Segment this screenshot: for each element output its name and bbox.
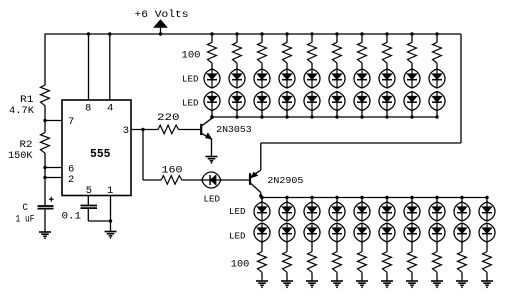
resistor 100 (bottom bank col 5) <box>358 252 367 273</box>
resistor 160 <box>161 164 182 184</box>
wire: column 3 top bank <box>261 34 263 42</box>
wire: column 2 top bank <box>236 34 238 42</box>
LED D0 indicator (horizontal) <box>202 172 221 204</box>
wire: column 3 bottom bank <box>311 198 313 203</box>
junction: top rail column 1 <box>210 32 213 35</box>
LED (top bank col 1 upper) <box>204 69 220 88</box>
LED (top bank col 2 upper) <box>229 69 245 88</box>
LED (top bank col 2 lower) <box>229 92 245 111</box>
wire: column 6 bottom bank <box>386 198 388 203</box>
wire: 2N3053 collector to top LED bus <box>211 117 213 118</box>
svg-text:7: 7 <box>68 116 74 128</box>
svg-text:4.7K: 4.7K <box>9 105 35 117</box>
wire: top LED bank bottom bus <box>212 116 437 118</box>
LED (top bank col 4 upper) <box>279 69 295 88</box>
wire: column 9 top bank <box>411 34 413 42</box>
ground: bottom bank col 10 <box>481 281 493 288</box>
svg-text:LED: LED <box>229 207 246 217</box>
wire: column 1 top bank <box>211 34 213 42</box>
junction: top rail column 10 <box>435 32 438 35</box>
wire: pin 1 down to ground <box>110 196 112 232</box>
LED (bottom bank col 8 upper) <box>429 202 445 221</box>
junction: pin 8 on rail <box>87 32 90 35</box>
ground: bottom bank col 6 <box>381 281 393 288</box>
junction: top rail column 2 <box>235 32 238 35</box>
LED (bottom bank col 1 upper) <box>254 202 270 221</box>
LED (bottom bank col 2 lower) <box>279 223 295 242</box>
wire: column 8 bottom bank <box>436 198 438 203</box>
LED (top bank col 10 upper) <box>429 69 445 88</box>
junction: top bus column 9 <box>410 115 413 118</box>
LED (top bank col 8 lower) <box>379 92 395 111</box>
ground: bottom bank col 9 <box>456 281 468 288</box>
junction: pin 2 node <box>43 176 46 179</box>
wire: 2N3053 emitter to ground <box>211 139 213 156</box>
wire: 220 to 2N3053 base <box>178 129 200 131</box>
resistor R1 <box>9 85 49 117</box>
svg-text:LED: LED <box>182 74 199 84</box>
LED (top bank col 10 lower) <box>429 92 445 111</box>
wire: column 6 top bank <box>336 34 338 42</box>
svg-text:3: 3 <box>123 125 129 137</box>
junction: top rail column 4 <box>285 32 288 35</box>
junction: top bus column 8 <box>385 115 388 118</box>
ground: bottom bank col 7 <box>406 281 418 288</box>
transistor Q1 2N3053 (NPN) <box>201 118 252 139</box>
junction: bottom bus column 4 <box>335 196 338 199</box>
ground: bottom bank col 3 <box>306 281 318 288</box>
wire: column 9 bottom bank <box>461 198 463 203</box>
wire: column 7 top bank <box>361 34 363 42</box>
ground: bottom bank col 4 <box>331 281 343 288</box>
svg-text:LED: LED <box>229 232 246 242</box>
svg-text:220: 220 <box>157 112 180 124</box>
resistor 100 (top bank col 2) <box>233 42 242 63</box>
LED (top bank col 9 lower) <box>404 92 420 111</box>
node +6V: supply arrow and label <box>135 9 189 34</box>
resistor 100 (top bank col 5) <box>308 42 317 63</box>
wire: R1 junction down through R2 to capacitor C <box>44 121 46 133</box>
junction: top rail column 6 <box>335 32 338 35</box>
svg-text:100: 100 <box>231 259 250 271</box>
resistor 100 (bottom bank col 4) <box>333 252 342 273</box>
svg-text:LED: LED <box>182 99 199 109</box>
junction: bottom bus column 5 <box>360 196 363 199</box>
resistor 100 (top bank col 10) <box>433 42 442 63</box>
wire: column 5 bottom bank <box>361 198 363 203</box>
svg-text:150K: 150K <box>8 150 33 162</box>
svg-text:+6 Volts: +6 Volts <box>135 9 189 21</box>
LED (bottom bank col 4 upper) <box>329 202 345 221</box>
capacitor 0.1 <box>62 206 98 223</box>
wire: +6V drop into 2N2905 emitter <box>260 143 262 170</box>
ground: bottom bank col 5 <box>356 281 368 288</box>
LED (bottom bank col 2 upper) <box>279 202 295 221</box>
LED (bottom bank col 7 lower) <box>404 223 420 242</box>
junction: collector on bottom LED bus <box>259 194 262 197</box>
LED (top bank col 6 upper) <box>329 69 345 88</box>
LED (bottom bank col 3 lower) <box>304 223 320 242</box>
wire: bottom LED bank top bus <box>261 197 487 199</box>
LED (top bank col 3 upper) <box>254 69 270 88</box>
wire: pin 8 to +6V rail <box>88 34 90 100</box>
wire: 160 to indicator LED <box>182 179 202 181</box>
junction: top rail column 3 <box>260 32 263 35</box>
wire: column 5 top bank <box>311 34 313 42</box>
svg-text:4: 4 <box>107 103 113 115</box>
LED (bottom bank col 5 upper) <box>354 202 370 221</box>
resistor 100 (top bank col 6) <box>333 42 342 63</box>
LED (bottom bank col 8 lower) <box>429 223 445 242</box>
wire: +6V feed running left to 2N2905 emitter <box>261 142 461 144</box>
junction: pin 4 on rail <box>108 32 111 35</box>
junction: top bus column 6 <box>335 115 338 118</box>
junction: top rail column 7 <box>360 32 363 35</box>
svg-text:LED: LED <box>204 194 221 204</box>
LED (top bank col 5 lower) <box>304 92 320 111</box>
junction: bottom bus column 3 <box>310 196 313 199</box>
svg-text:C: C <box>23 202 29 214</box>
junction: pin1 / 0.1 cap <box>109 219 112 222</box>
junction: bottom bus column 2 <box>285 196 288 199</box>
LED (top bank col 8 upper) <box>379 69 395 88</box>
resistor 100 (top bank col 8) <box>383 42 392 63</box>
capacitor C 1uF (polarized) <box>16 197 54 226</box>
LED (bottom bank col 7 upper) <box>404 202 420 221</box>
wire: column 7 bottom bank <box>411 198 413 203</box>
svg-text:1: 1 <box>107 185 113 197</box>
junction: pin 3 branch node <box>141 128 144 131</box>
LED (top bank col 3 lower) <box>254 92 270 111</box>
resistor 100 (bottom bank col 9) <box>458 252 467 273</box>
LED (bottom bank col 10 lower) <box>479 223 495 242</box>
LED (bottom bank col 6 upper) <box>379 202 395 221</box>
svg-text:160: 160 <box>162 164 183 176</box>
wire: +6V rail right-side drop to x=461 <box>460 34 462 143</box>
LED (top bank col 7 upper) <box>354 69 370 88</box>
junction: top bus column 2 <box>235 115 238 118</box>
LED (bottom bank col 10 upper) <box>479 202 495 221</box>
junction: bottom bus column 10 <box>485 196 488 199</box>
wire: node to pin 6 <box>45 167 62 169</box>
svg-text:100: 100 <box>182 49 201 61</box>
resistor R2 <box>8 133 49 163</box>
wire: column 2 bottom bank <box>286 198 288 203</box>
LED (top bank col 4 lower) <box>279 92 295 111</box>
resistor 100 (top bank col 1) <box>208 42 217 63</box>
wire: LED to 2N2905 base <box>221 179 250 181</box>
resistor 220 <box>157 112 180 134</box>
wire: branch from pin3 node down <box>142 130 144 181</box>
wire: column 10 bottom bank <box>486 198 488 203</box>
wire: 2N2905 collector to bottom LED bus <box>260 193 262 198</box>
LED (top bank col 7 lower) <box>354 92 370 111</box>
LED (bottom bank col 3 upper) <box>304 202 320 221</box>
wire: +6V horizontal rail <box>45 33 462 35</box>
svg-text:5: 5 <box>86 185 92 197</box>
svg-text:0.1: 0.1 <box>62 211 82 223</box>
wire: rail down-left corner to R1 <box>44 34 46 85</box>
wire: column 1 bottom bank <box>261 198 263 203</box>
resistor 100 (bottom bank col 1) <box>258 252 267 273</box>
resistor 100 (top bank col 4) <box>283 42 292 63</box>
ground: below pin 1 <box>105 232 117 239</box>
junction: top bus column 4 <box>285 115 288 118</box>
resistor 100 (bottom bank col 8) <box>433 252 442 273</box>
wire: column 4 top bank <box>286 34 288 42</box>
svg-text:8: 8 <box>85 103 91 115</box>
transistor Q2 2N2905 (PNP) <box>250 170 303 192</box>
wire: column 8 top bank <box>386 34 388 42</box>
wire: column 10 top bank <box>436 34 438 42</box>
svg-text:2: 2 <box>68 174 74 186</box>
LED (bottom bank col 9 lower) <box>454 223 470 242</box>
ground: bottom bank col 2 <box>281 281 293 288</box>
wire: column 4 bottom bank <box>336 198 338 203</box>
junction: top rail column 5 <box>310 32 313 35</box>
resistor 100 (bottom bank col 3) <box>308 252 317 273</box>
op-amp U1: 555 timer IC box <box>62 100 131 197</box>
resistor 100 (top bank col 9) <box>408 42 417 63</box>
ground: bottom bank col 8 <box>431 281 443 288</box>
junction: top bus column 10 <box>435 115 438 118</box>
svg-text:1 uF: 1 uF <box>16 214 35 226</box>
LED (bottom bank col 6 lower) <box>379 223 395 242</box>
junction: pin 6 node <box>43 166 46 169</box>
junction: arrow on rail <box>159 32 162 35</box>
wire: 0.1 cap bottom to pin 1 <box>87 208 89 221</box>
junction: bottom bus column 6 <box>385 196 388 199</box>
junction: top bus column 1 <box>210 115 213 118</box>
wire: C to ground <box>44 209 46 232</box>
wire: node to pin 2 <box>45 177 62 179</box>
junction: top bus column 7 <box>360 115 363 118</box>
ground: below C <box>39 232 51 239</box>
wire: pin 5 down to 0.1 cap <box>87 196 89 206</box>
resistor 100 (top bank col 3) <box>258 42 267 63</box>
svg-text:2N3053: 2N3053 <box>216 125 252 135</box>
wire: R1/R2 junction to pin 7 <box>45 120 62 122</box>
junction: bottom bus column 9 <box>460 196 463 199</box>
LED (top bank col 5 upper) <box>304 69 320 88</box>
svg-text:2N2905: 2N2905 <box>267 176 303 186</box>
junction: bottom bus column 7 <box>410 196 413 199</box>
resistor 100 (top bank col 7) <box>358 42 367 63</box>
LED (bottom bank col 1 lower) <box>254 223 270 242</box>
junction: node at pin 7 / R1 / R2 <box>43 119 46 122</box>
LED (top bank col 9 upper) <box>404 69 420 88</box>
junction: top bus column 5 <box>310 115 313 118</box>
resistor 100 (bottom bank col 6) <box>383 252 392 273</box>
LED (top bank col 1 lower) <box>204 92 220 111</box>
resistor 100 (bottom bank col 2) <box>283 252 292 273</box>
wire: pin 3 to 220 resistor <box>131 129 158 131</box>
resistor 100 (bottom bank col 7) <box>408 252 417 273</box>
junction: bottom bus column 8 <box>435 196 438 199</box>
LED (bottom bank col 9 upper) <box>454 202 470 221</box>
junction: collector on top LED bus <box>210 116 213 119</box>
junction: top bus column 3 <box>260 115 263 118</box>
resistor 100 (bottom bank col 10) <box>483 252 492 273</box>
svg-text:555: 555 <box>90 147 111 161</box>
junction: top rail column 8 <box>385 32 388 35</box>
wire: pin 4 to +6V rail <box>109 34 111 100</box>
LED (top bank col 6 lower) <box>329 92 345 111</box>
LED (bottom bank col 5 lower) <box>354 223 370 242</box>
LED (bottom bank col 4 lower) <box>329 223 345 242</box>
junction: top rail column 9 <box>410 32 413 35</box>
ground: bottom bank col 1 <box>256 281 268 288</box>
junction: bottom bus column 1 <box>260 196 263 199</box>
ground: 2N3053 emitter <box>206 157 218 164</box>
